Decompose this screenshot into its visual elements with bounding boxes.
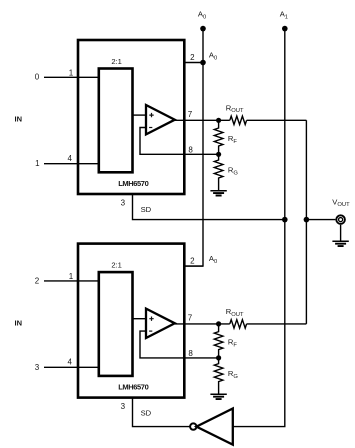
svg-text:A0: A0 — [209, 254, 217, 265]
node A0 terminal dot — [200, 26, 206, 32]
svg-text:RF: RF — [228, 134, 237, 145]
junction dot pin2/A0 (upper) — [200, 60, 206, 66]
svg-text:RG: RG — [228, 166, 238, 177]
svg-text:ROUT: ROUT — [226, 307, 244, 318]
svg-text:A0: A0 — [198, 9, 206, 20]
svg-text:2: 2 — [190, 53, 195, 62]
junction dot pin 8 node — [216, 152, 221, 157]
wire: A1 net vertical down to inverter input — [233, 29, 285, 427]
svg-text:SD: SD — [141, 409, 152, 418]
svg-text:2: 2 — [35, 276, 40, 285]
svg-text:4: 4 — [67, 154, 72, 163]
svg-text:3: 3 — [121, 402, 126, 411]
wire VOUT stub — [306, 219, 335, 221]
wire: A0 net vertical down to lower block pin 2 — [184, 29, 203, 267]
svg-text:IN: IN — [15, 318, 23, 327]
op-amp plus sign — [149, 317, 153, 321]
svg-text:RG: RG — [228, 369, 238, 380]
multiplexer amp U1 outer box — [78, 40, 184, 194]
resistor RG (lower) — [214, 358, 223, 394]
svg-text:IN: IN — [15, 114, 23, 123]
svg-text:2:1: 2:1 — [111, 261, 122, 270]
inverter U3 triangle — [196, 409, 232, 445]
connector VOUT (outer ring) — [336, 215, 345, 224]
svg-text:ROUT: ROUT — [226, 103, 244, 114]
op-amp U1 — [146, 105, 175, 134]
svg-text:7: 7 — [188, 110, 193, 119]
wire VOUT connector to ground — [340, 225, 342, 241]
svg-text:4: 4 — [67, 358, 72, 367]
svg-text:1: 1 — [69, 272, 74, 281]
resistor ROUT (lower) — [230, 320, 247, 328]
resistor RF (upper) — [214, 120, 223, 154]
mux U2 2:1 selector box — [99, 272, 133, 376]
wire feedback from op-amp minus to pin 8 node — [140, 331, 219, 358]
svg-text:LMH6570: LMH6570 — [118, 179, 148, 188]
node A1 terminal dot — [282, 26, 288, 32]
wire pin 4 input — [44, 163, 99, 165]
svg-text:1: 1 — [35, 159, 40, 168]
svg-text:VOUT: VOUT — [332, 197, 350, 208]
junction dot VOUT node — [304, 217, 310, 223]
resistor RF (lower) — [214, 324, 223, 358]
wire op-amp output pin 7 — [175, 323, 230, 325]
svg-text:3: 3 — [121, 198, 126, 207]
resistor ROUT (upper) — [230, 116, 247, 124]
ground (upper RG) — [210, 190, 226, 192]
junction dot pin 7 node — [216, 118, 221, 123]
wire op-amp output pin 7 — [175, 119, 230, 121]
svg-text:8: 8 — [188, 145, 193, 154]
svg-text:3: 3 — [35, 363, 40, 372]
wire mux output to op-amp + — [133, 114, 147, 116]
inverter U3 bubble — [190, 423, 196, 429]
op-amp minus sign — [149, 127, 152, 129]
connector VOUT (inner ring) — [339, 218, 343, 222]
svg-text:LMH6570: LMH6570 — [118, 383, 148, 392]
multiplexer amp U2 outer box — [78, 244, 184, 398]
resistor RG (upper) — [214, 154, 223, 190]
wire SD (lower) to inverter output bubble — [133, 398, 191, 427]
wire feedback from op-amp minus to pin 8 node — [140, 128, 219, 155]
mux U1 2:1 selector box — [99, 69, 133, 173]
wire ROUT output to right — [247, 119, 307, 121]
wire mux output to op-amp + — [133, 318, 147, 320]
wire pin 1 input — [44, 280, 99, 282]
svg-text:A0: A0 — [209, 51, 217, 62]
junction dot SD/A1 — [282, 217, 288, 223]
wire pin 2 to A0 — [184, 62, 203, 64]
svg-text:2: 2 — [190, 257, 195, 266]
ground (VOUT) — [332, 240, 348, 242]
svg-text:8: 8 — [188, 349, 193, 358]
wire pin 4 input — [44, 366, 99, 368]
svg-text:7: 7 — [188, 314, 193, 323]
svg-text:2:1: 2:1 — [111, 57, 122, 66]
wire output bus vertical joining both ROUT — [305, 120, 307, 324]
svg-text:RF: RF — [228, 338, 237, 349]
op-amp plus sign — [149, 113, 153, 117]
wire SD (upper) to A1 — [133, 194, 285, 220]
op-amp U2 — [146, 309, 175, 338]
junction dot pin 8 node — [216, 355, 221, 360]
svg-text:A1: A1 — [280, 9, 288, 20]
op-amp minus sign — [149, 330, 152, 332]
wire pin 2 to A0 — [184, 265, 203, 267]
junction dot pin 7 node — [216, 321, 221, 326]
svg-text:0: 0 — [35, 73, 40, 82]
ground (lower RG) — [210, 393, 226, 395]
wire ROUT output to right — [247, 323, 307, 325]
wire pin 1 input — [44, 76, 99, 78]
svg-text:1: 1 — [69, 69, 74, 78]
svg-text:SD: SD — [141, 205, 152, 214]
